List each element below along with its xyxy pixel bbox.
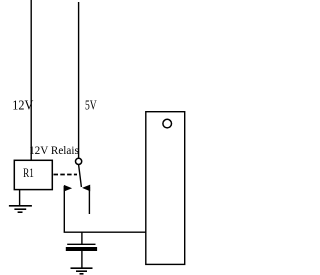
svg-text:12V Relais: 12V Relais xyxy=(29,143,79,157)
svg-text:12V: 12V xyxy=(12,98,33,113)
svg-text:5V: 5V xyxy=(85,98,97,113)
svg-text:R1: R1 xyxy=(23,165,34,180)
